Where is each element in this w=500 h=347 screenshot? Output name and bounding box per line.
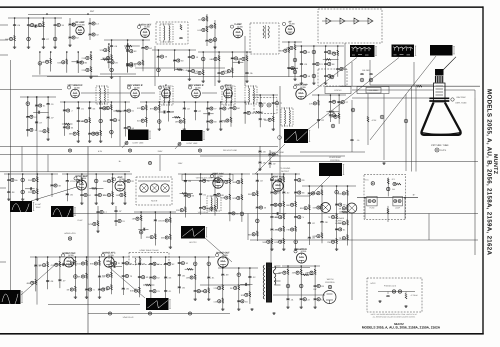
component bubble xyxy=(331,240,334,243)
component bubble xyxy=(286,284,290,288)
component bubble xyxy=(342,237,345,240)
svg-text:64K: 64K xyxy=(57,61,61,64)
wire xyxy=(323,58,339,60)
component bubble xyxy=(94,262,97,265)
waveform scope trace W8 xyxy=(51,206,76,219)
resistor xyxy=(36,189,38,194)
resistor xyxy=(81,178,83,183)
capacitor xyxy=(164,291,167,292)
dashed enclosure selenium bridge xyxy=(318,9,382,43)
svg-text:99K: 99K xyxy=(222,120,226,123)
junction xyxy=(155,211,157,213)
waveform leader line W4 xyxy=(122,141,128,148)
svg-text:14K: 14K xyxy=(264,119,268,122)
svg-text:59K: 59K xyxy=(306,272,310,275)
wire xyxy=(240,283,252,285)
junction xyxy=(123,256,125,258)
border frame top xyxy=(0,6,484,8)
junction xyxy=(51,173,53,175)
capacitor xyxy=(88,133,91,134)
wire CRT socket pair xyxy=(412,87,417,172)
junction xyxy=(111,256,113,258)
wire xyxy=(230,102,232,127)
wire yoke lead 2 xyxy=(367,94,369,145)
wire xyxy=(39,52,41,75)
wire edge stub 2 xyxy=(0,39,8,41)
svg-text:45K: 45K xyxy=(103,194,107,197)
tube 2ND VIDEO IF xyxy=(131,89,140,98)
wire xyxy=(104,39,150,41)
resistor xyxy=(35,279,37,284)
svg-text:17K: 17K xyxy=(309,102,313,105)
wire flyback to HV rect xyxy=(273,294,325,296)
component bubble xyxy=(98,193,101,196)
ground xyxy=(312,82,315,85)
capacitor xyxy=(256,180,259,181)
resistor xyxy=(230,117,232,122)
junction xyxy=(325,45,327,47)
component bubble xyxy=(165,219,168,222)
junction xyxy=(111,101,113,103)
ground xyxy=(193,298,196,301)
component bubble xyxy=(89,288,92,291)
resistor xyxy=(283,214,285,219)
component bubble xyxy=(291,203,294,206)
junction xyxy=(189,49,191,51)
component bubble xyxy=(214,57,217,60)
ground xyxy=(382,162,385,165)
component bubble xyxy=(339,228,342,231)
component bubble xyxy=(118,219,121,222)
bubble terminal 3 xyxy=(188,312,191,315)
wire xyxy=(200,174,202,215)
vertical blocking transformer T9 xyxy=(207,196,221,212)
capacitor xyxy=(138,277,141,278)
wire xyxy=(326,111,339,113)
wire xyxy=(336,186,338,248)
ground xyxy=(294,248,297,251)
ground xyxy=(98,296,101,299)
svg-text:LAMP: LAMP xyxy=(395,207,401,210)
junction xyxy=(301,45,303,47)
resistor xyxy=(42,22,44,27)
capacitor xyxy=(114,221,117,222)
lamp assembly box xyxy=(393,196,403,206)
electrolytic can C80B xyxy=(150,184,158,192)
capacitor xyxy=(149,263,152,264)
junction xyxy=(404,197,406,199)
component bubble xyxy=(106,287,109,290)
capacitor xyxy=(245,73,248,74)
ground xyxy=(183,128,186,131)
wire xyxy=(337,46,339,77)
component bubble xyxy=(340,67,343,70)
wire volume line xyxy=(135,67,225,69)
junction xyxy=(194,256,196,258)
component bubble xyxy=(210,107,213,110)
component bubble xyxy=(259,206,262,209)
component bubble xyxy=(328,62,331,65)
wire xyxy=(81,92,130,94)
ground xyxy=(68,44,71,47)
junction xyxy=(165,256,167,258)
svg-text:4.5 MC: 4.5 MC xyxy=(35,203,42,206)
svg-text:52K: 52K xyxy=(232,197,236,200)
capacitor xyxy=(164,110,165,113)
wire xyxy=(208,257,210,298)
wire drop to bus 2 xyxy=(413,62,415,86)
resistor xyxy=(338,113,340,118)
resistor xyxy=(36,177,38,182)
component bubble xyxy=(255,219,259,223)
resistor xyxy=(222,285,224,290)
wire edge stub 3 xyxy=(0,54,8,56)
wire xyxy=(138,228,148,230)
bubble contrast B xyxy=(267,103,271,107)
ground xyxy=(169,246,172,249)
component bubble xyxy=(209,39,212,42)
wire xyxy=(272,213,287,215)
component bubble xyxy=(85,119,88,122)
wire xyxy=(54,18,56,46)
wire xyxy=(109,265,123,267)
ground xyxy=(272,128,275,131)
svg-text:ANT: ANT xyxy=(90,10,95,13)
waveform scope trace W5 xyxy=(181,130,205,141)
junction xyxy=(321,185,323,187)
capacitor xyxy=(35,122,38,123)
junction xyxy=(202,51,204,53)
ground xyxy=(88,140,91,143)
junction xyxy=(78,101,80,103)
component bubble xyxy=(342,192,345,195)
component bubble xyxy=(233,107,236,110)
svg-text:6CB6: 6CB6 xyxy=(144,26,150,29)
wire xyxy=(347,186,349,246)
capacitor xyxy=(126,64,129,65)
junction xyxy=(14,17,16,19)
resistor xyxy=(77,130,79,135)
capacitor xyxy=(272,103,275,104)
tube HORIZ OSC xyxy=(64,257,74,267)
capacitor xyxy=(206,121,209,122)
svg-text:YOKE PLUG: YOKE PLUG xyxy=(123,316,134,319)
component bubble xyxy=(317,192,320,195)
tube part bubble 2ND VIDEO IF xyxy=(127,86,130,89)
svg-text:6CB6: 6CB6 xyxy=(237,25,243,28)
waveform leader line W2 xyxy=(306,58,399,132)
component bubble xyxy=(180,209,183,212)
junction xyxy=(35,256,37,258)
svg-text:85K: 85K xyxy=(103,180,107,183)
resistor xyxy=(140,215,142,220)
junction xyxy=(127,39,129,41)
wire xyxy=(325,46,327,82)
wire drop 9 xyxy=(428,214,430,241)
component bubble xyxy=(136,217,139,220)
resistor option xyxy=(405,294,407,299)
component bubble xyxy=(70,288,73,291)
component bubble xyxy=(342,207,345,210)
component bubble xyxy=(120,193,123,196)
dashed enclosure output transformer xyxy=(250,23,279,54)
capacitor xyxy=(287,68,290,69)
wire xyxy=(218,52,220,80)
component bubble xyxy=(279,216,282,219)
label box horiz mult xyxy=(182,174,233,180)
resistor xyxy=(112,192,114,197)
svg-text:DEFL YOKE: DEFL YOKE xyxy=(455,102,467,105)
wire xyxy=(229,174,231,221)
ground option 2 xyxy=(378,300,381,303)
component bubble xyxy=(223,107,226,110)
wire drop 6 xyxy=(159,155,161,171)
resistor xyxy=(175,116,180,118)
svg-text:6CB6: 6CB6 xyxy=(79,24,85,27)
capacitor xyxy=(122,288,125,289)
capacitor xyxy=(110,120,113,121)
resistor xyxy=(183,118,185,123)
wire xyxy=(154,212,156,246)
wire xyxy=(165,257,167,298)
dashed enclosure UHF option xyxy=(367,278,422,312)
svg-text:250 VOLT LINE: 250 VOLT LINE xyxy=(223,149,238,152)
svg-text:5W: 5W xyxy=(392,188,395,191)
waveform leader line W10 xyxy=(296,176,330,196)
junction xyxy=(336,185,338,187)
wire xyxy=(168,102,170,122)
wire xyxy=(198,51,252,53)
wire xyxy=(140,212,142,239)
resistor xyxy=(317,100,319,105)
resistor xyxy=(288,47,290,52)
wire xyxy=(95,174,97,202)
component bubble xyxy=(138,62,141,65)
svg-text:84K: 84K xyxy=(130,290,134,293)
capacitor xyxy=(126,65,129,66)
capacitor xyxy=(243,112,246,113)
capacitor xyxy=(206,108,209,109)
wire xyxy=(124,45,140,47)
resistor xyxy=(229,194,231,199)
wire xyxy=(124,102,126,137)
resistor xyxy=(108,47,110,52)
resistor xyxy=(145,105,147,110)
wire power bus xyxy=(357,197,418,199)
component bubble xyxy=(210,207,213,210)
waveform scope trace W10 xyxy=(319,163,344,176)
wire xyxy=(141,92,155,94)
resistor xyxy=(110,285,112,290)
resistor xyxy=(290,67,295,69)
junction xyxy=(347,185,349,187)
resistor xyxy=(50,58,52,63)
ground xyxy=(324,82,327,85)
wire xyxy=(269,150,271,168)
junction xyxy=(22,173,24,175)
svg-text:13K: 13K xyxy=(186,277,190,280)
wire xyxy=(282,265,320,267)
component bubble xyxy=(110,68,114,72)
capacitor xyxy=(68,37,71,38)
wire xyxy=(200,284,250,286)
wire xyxy=(300,266,302,306)
junction xyxy=(100,101,102,103)
bubble pilot xyxy=(393,182,396,185)
wire xyxy=(62,123,73,125)
component bubble xyxy=(283,271,286,274)
wire xyxy=(30,25,45,27)
capacitor C71 xyxy=(360,74,363,75)
resistor xyxy=(283,238,285,243)
component bubble xyxy=(298,216,301,219)
tube VIDEO AMP xyxy=(296,89,306,99)
junction xyxy=(207,101,209,103)
svg-text:44K: 44K xyxy=(313,207,317,210)
bubble tap xyxy=(148,161,151,164)
wire drop 3 xyxy=(214,46,216,86)
resistor xyxy=(59,261,61,266)
rectifier tube V16 xyxy=(347,203,357,213)
wire box right edge drop xyxy=(404,198,406,219)
ground xyxy=(300,82,303,85)
wire xyxy=(207,102,209,128)
component bubble xyxy=(113,119,116,122)
ground xyxy=(95,202,98,205)
wire B+ line lower xyxy=(250,239,478,241)
component bubble xyxy=(267,240,270,243)
svg-text:RECEPT.: RECEPT. xyxy=(335,222,344,225)
svg-text:92K: 92K xyxy=(102,107,106,110)
capacitor xyxy=(277,212,278,215)
wire xyxy=(62,173,132,175)
component bubble xyxy=(204,290,207,293)
resistor xyxy=(283,226,285,231)
tube part bubble AF xyxy=(282,22,285,25)
ground flyback xyxy=(250,308,253,311)
junction xyxy=(59,256,61,258)
junction xyxy=(200,173,202,175)
wire xyxy=(51,174,53,197)
wire xyxy=(66,174,68,201)
waveform leader line W12 xyxy=(110,268,145,298)
capacitor xyxy=(324,76,327,77)
ground xyxy=(21,198,24,201)
wire box left edge drop xyxy=(364,198,366,219)
CRT picture tube xyxy=(421,57,460,135)
wire drop 8 xyxy=(351,214,353,241)
capacitor xyxy=(77,62,80,63)
svg-text:45K: 45K xyxy=(161,237,165,240)
capacitor xyxy=(96,212,99,213)
capacitor xyxy=(300,64,303,65)
tube part bubble 1ST VIDEO IF xyxy=(67,86,70,89)
capacitor xyxy=(294,180,297,181)
capacitor xyxy=(85,289,88,290)
ground xyxy=(207,298,210,301)
junction xyxy=(54,17,56,19)
component bubble xyxy=(111,61,114,64)
svg-text:61K: 61K xyxy=(77,263,81,266)
capacitor xyxy=(231,58,234,59)
resistor xyxy=(321,204,323,209)
wire xyxy=(351,240,353,300)
tube HORIZ AFC xyxy=(104,257,114,267)
capacitor xyxy=(259,103,262,104)
ground xyxy=(221,308,224,311)
component bubble xyxy=(296,271,299,274)
tube 4TH IF xyxy=(224,89,233,98)
tube V AMP xyxy=(233,28,243,38)
output transformer T3 xyxy=(263,25,269,39)
wire xyxy=(127,44,129,73)
component bubble xyxy=(157,68,161,72)
dashed enclosure power supply xyxy=(364,174,406,219)
IF transformer T6 xyxy=(222,86,235,106)
component bubble xyxy=(202,28,205,31)
wire xyxy=(60,101,130,103)
component bubble xyxy=(311,192,314,195)
capacitor xyxy=(178,287,181,288)
svg-text:6CB6: 6CB6 xyxy=(74,86,80,89)
wire xyxy=(238,268,240,308)
component bubble xyxy=(134,289,137,292)
resistor R71 xyxy=(387,179,389,184)
capacitor xyxy=(35,105,38,106)
wire CRT cathode xyxy=(352,89,433,91)
resistor xyxy=(346,235,348,240)
capacitor xyxy=(63,127,66,128)
capacitor xyxy=(300,299,303,300)
border frame right xyxy=(482,6,483,334)
component bubble xyxy=(275,102,278,105)
resistor pilot xyxy=(396,183,401,185)
wire far-left vertical xyxy=(10,60,12,290)
wire xyxy=(86,257,88,296)
wire 250 volt line xyxy=(200,155,345,157)
svg-text:96K: 96K xyxy=(274,179,278,182)
wire xyxy=(8,174,10,198)
capacitor xyxy=(282,192,285,193)
resistor xyxy=(271,238,273,243)
svg-text:22K: 22K xyxy=(39,130,43,133)
junction xyxy=(229,173,231,175)
capacitor xyxy=(77,108,80,109)
svg-text:80K: 80K xyxy=(279,50,283,53)
ground xyxy=(46,138,49,141)
resistor xyxy=(158,105,160,110)
resistor xyxy=(283,201,285,206)
ground xyxy=(293,78,296,81)
wire section divider left xyxy=(0,171,130,173)
tube SYNC SEP xyxy=(77,180,87,190)
resistor xyxy=(90,67,92,72)
component bubble xyxy=(158,120,162,124)
component bubble xyxy=(290,46,293,49)
junction xyxy=(47,96,49,98)
capacitor xyxy=(314,299,317,300)
ground xyxy=(123,202,126,205)
resistor xyxy=(295,201,297,206)
resistor xyxy=(194,274,196,279)
capacitor xyxy=(314,286,317,287)
waveform leader line W6 xyxy=(255,144,285,174)
capacitor xyxy=(270,192,273,193)
resistor xyxy=(256,191,258,196)
junction xyxy=(158,49,160,51)
bubble lamp 2 xyxy=(398,200,401,203)
component bubble xyxy=(125,262,128,265)
